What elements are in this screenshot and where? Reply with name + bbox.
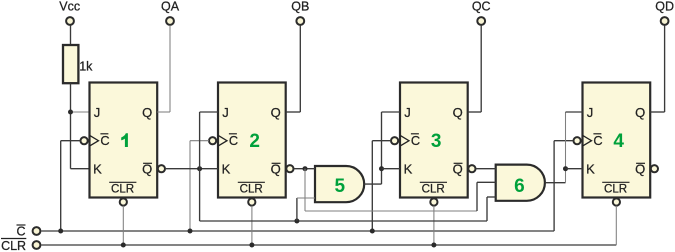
svg-text:K: K — [404, 161, 413, 176]
wire riser to gate5 lower input — [297, 198, 315, 221]
svg-text:CLR: CLR — [422, 182, 445, 195]
wire C-bar bus — [41, 230, 554, 232]
wire gate6 output — [545, 182, 565, 184]
svg-text:3: 3 — [431, 131, 442, 152]
wire Q1-bar to K2 — [165, 168, 218, 170]
node CLR junction 3 — [431, 243, 436, 248]
svg-text:Q: Q — [635, 105, 645, 120]
svg-text:Q: Q — [453, 105, 463, 120]
wire Q2-bar run to gate6 — [305, 210, 477, 212]
QD terminal — [655, 0, 674, 25]
wire C-bar riser to FF3 clock — [372, 141, 391, 231]
svg-text:QB: QB — [291, 0, 309, 14]
node rail junction — [294, 219, 299, 224]
wire CLR riser to FF1 — [122, 206, 124, 245]
node CLR junction 2 — [249, 243, 254, 248]
wire J3 stub — [382, 111, 401, 113]
svg-text:J: J — [587, 105, 594, 120]
svg-text:K: K — [222, 161, 231, 176]
svg-text:QC: QC — [472, 0, 491, 14]
svg-text:Vcc: Vcc — [59, 0, 80, 14]
QA terminal — [161, 0, 180, 25]
wire Q3-bar to gate6 upper input — [476, 168, 496, 170]
node K2 junction — [197, 166, 202, 171]
svg-text:C: C — [411, 133, 420, 148]
svg-text:J: J — [404, 105, 411, 120]
wire resistor to J1/K1 (logic HIGH net) — [70, 83, 72, 169]
node C-bar junction 1 — [58, 229, 63, 234]
Vcc terminal — [59, 0, 80, 25]
wire C-bar riser to FF4 clock — [554, 141, 573, 231]
node K3 junction — [379, 166, 384, 171]
svg-text:CLR: CLR — [604, 182, 627, 195]
svg-text:K: K — [93, 161, 102, 176]
wire CLR riser to FF4 — [615, 206, 617, 245]
svg-text:QD: QD — [655, 0, 674, 14]
svg-text:C: C — [229, 133, 238, 148]
svg-text:J: J — [222, 105, 229, 120]
node C-bar junction 2 — [188, 229, 193, 234]
wire Q1-bar rail — [200, 220, 487, 222]
wire riser to gate6 middle input — [477, 182, 496, 211]
QB terminal — [291, 0, 309, 25]
wire Q2-bar to gate5 upper input — [294, 168, 316, 170]
svg-text:4: 4 — [613, 131, 624, 152]
node Q2-bar junction — [303, 166, 308, 171]
resistor R1 (1k) — [63, 45, 93, 83]
svg-text:CLR: CLR — [111, 182, 134, 195]
node K4 junction — [563, 166, 568, 171]
wire J1 stub — [71, 111, 90, 113]
and-gate 5 — [315, 166, 364, 202]
svg-text:QA: QA — [161, 0, 180, 14]
svg-text:K: K — [586, 161, 595, 176]
svg-text:C: C — [100, 133, 109, 148]
svg-text:5: 5 — [335, 176, 346, 197]
flip-flop 3 (JK) — [391, 83, 476, 206]
wire K4 stub — [566, 168, 583, 170]
wire K1 stub — [71, 168, 90, 170]
flip-flop 2 (JK) — [209, 83, 294, 206]
node C-bar junction 3 — [370, 229, 375, 234]
svg-text:CLR: CLR — [240, 182, 263, 195]
C-bar input terminal — [16, 224, 40, 238]
wire J2 stub — [200, 111, 218, 113]
svg-text:Q: Q — [142, 105, 152, 120]
node CLR junction 1 — [121, 243, 126, 248]
wire J4 stub — [566, 111, 583, 113]
wire J2/K2 tie vertical — [199, 112, 201, 221]
wire CLR riser to FF3 — [433, 206, 435, 245]
wire C-bar riser to FF1 clock — [61, 141, 81, 231]
wire Q4 to QD — [650, 25, 664, 112]
wire riser to gate6 lower input — [487, 197, 496, 221]
wire J3/K3 tie vertical — [381, 112, 383, 184]
wire CLR riser to FF2 — [251, 206, 253, 245]
CLR input terminal — [1, 239, 40, 252]
QC terminal — [472, 0, 491, 25]
svg-text:CLR: CLR — [1, 239, 26, 252]
wire CLR bus — [41, 244, 616, 246]
wire Vcc to resistor — [70, 25, 72, 45]
svg-text:2: 2 — [249, 131, 260, 152]
svg-text:6: 6 — [514, 176, 525, 197]
wire Q1 to QA — [157, 25, 170, 112]
svg-text:J: J — [94, 105, 101, 120]
wire gate5 output — [364, 183, 381, 185]
svg-text:C: C — [593, 133, 602, 148]
wire J4/K4 tie vertical — [565, 112, 567, 183]
svg-text:C: C — [16, 224, 25, 238]
wire K3 stub — [382, 168, 401, 170]
flip-flop 1 (JK) — [81, 83, 165, 206]
svg-text:Q: Q — [271, 105, 281, 120]
wire Q2-bar branch down — [304, 169, 306, 211]
node J1 junction — [68, 110, 73, 115]
wire C-bar riser to FF2 clock — [190, 141, 209, 231]
wire Q2 to QB — [286, 25, 301, 112]
flip-flop 4 (JK) — [574, 83, 659, 206]
wire Q3 to QC — [468, 25, 482, 112]
svg-text:1k: 1k — [79, 60, 93, 74]
and-gate 6 — [496, 165, 545, 201]
